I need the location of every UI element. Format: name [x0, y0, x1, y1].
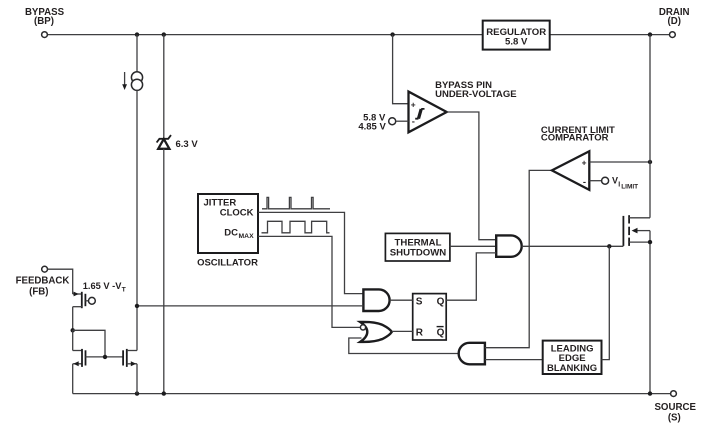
wire top rail BP to regulator: [47, 34, 482, 36]
svg-text:DC: DC: [224, 228, 238, 239]
current source I1: [131, 72, 142, 91]
wire AND output to MOSFET gate: [522, 245, 624, 247]
svg-text:(FB): (FB): [29, 286, 48, 297]
junction top rail at drain line: [648, 32, 652, 36]
wire UV comparator output to AND gate: [447, 112, 497, 240]
wire LEB to blanking AND: [485, 359, 543, 361]
wire source vertical: [649, 231, 651, 394]
wire zener lower to bottom rail: [163, 149, 165, 394]
terminal BYPASS (BP): [42, 32, 48, 38]
svg-text:OSCILLATOR: OSCILLATOR: [197, 258, 258, 269]
wire mirror gate feed: [73, 330, 105, 357]
wire blanking AND output to OR input: [349, 338, 459, 354]
label FEEDBACK (FB): [16, 275, 70, 297]
svg-text:FEEDBACK: FEEDBACK: [16, 275, 70, 286]
wire Q output to AND gate input: [446, 253, 496, 300]
junction bottom rail at zener: [162, 391, 166, 395]
or gate U8 reset: [360, 322, 392, 342]
label BYPASS PIN UNDER-VOLTAGE: [435, 80, 516, 100]
svg-text:R: R: [416, 327, 424, 338]
svg-text:+: +: [582, 157, 587, 167]
svg-text:(BP): (BP): [34, 16, 54, 27]
comparator U3 bypass pin under-voltage: [409, 92, 447, 133]
junction mirror left: [71, 328, 75, 332]
junction feedback sense node: [135, 304, 139, 308]
leading edge blanking U11: [543, 341, 602, 374]
thermal shutdown U4: [385, 233, 450, 261]
junction mirror gates: [103, 355, 107, 359]
junction top rail at current source: [135, 32, 139, 36]
wire drain vertical: [649, 35, 651, 218]
svg-text:5.8 V: 5.8 V: [505, 37, 528, 48]
node BP UV tap wire: [393, 35, 409, 104]
junction bottom rail at mirror: [135, 391, 139, 395]
wire current source upper: [136, 35, 138, 72]
transistor Q3 mirror left NMOS: [73, 349, 86, 367]
wire regulator to drain: [550, 34, 670, 36]
svg-text:(D): (D): [667, 16, 680, 27]
wire mirror left leg: [72, 330, 74, 350]
comparator U10 current limit: [552, 151, 589, 190]
flip-flop U6 S R latch: [413, 294, 447, 340]
zener diode VR1 6.3 V: [157, 135, 171, 149]
wire FB terminal to sense FET: [48, 269, 73, 294]
wire OR output to R input: [392, 330, 413, 332]
oscillator U2: [198, 194, 258, 253]
svg-text:1.65 V -V: 1.65 V -V: [83, 281, 123, 291]
transistor Q2 feedback sense PMOS: [73, 292, 96, 309]
wire current source lower to FB mirror junction: [136, 90, 138, 306]
wire current limit output to blanking AND: [485, 170, 552, 347]
wire current limit plus input to drain line: [589, 161, 650, 163]
regulator U1 5.8 V: [483, 21, 550, 50]
junction top rail at UV comparator tap: [390, 32, 394, 36]
svg-text:V: V: [612, 175, 618, 185]
junction drain line at comparator: [648, 160, 652, 164]
wire bottom rail: [73, 393, 671, 395]
current source arrow: [122, 72, 127, 90]
svg-text:SHUTDOWN: SHUTDOWN: [390, 248, 447, 259]
wire dcmax output to OR gate: [258, 236, 360, 327]
label V ILIMIT: [612, 175, 638, 190]
svg-text:I: I: [618, 182, 620, 189]
and gate U7 set: [363, 289, 389, 311]
transistor Q4 mirror right NMOS: [123, 349, 137, 367]
wire LEB to gate node: [602, 246, 610, 359]
and gate U9 blanking (mirrored): [459, 343, 485, 365]
svg-text:6.3 V: 6.3 V: [176, 139, 199, 150]
label CURRENT LIMIT COMPARATOR: [541, 125, 615, 143]
wire S AND output to S input: [390, 299, 413, 301]
svg-text:-: -: [412, 116, 415, 127]
svg-text:UNDER-VOLTAGE: UNDER-VOLTAGE: [435, 89, 516, 100]
junction bottom rail at source line: [648, 391, 652, 395]
wire Q3 source to bottom rail: [72, 364, 74, 394]
svg-text:CLOCK: CLOCK: [220, 208, 254, 219]
wire reference to comparator minus: [396, 120, 409, 122]
power MOSFET Q1: [623, 215, 650, 246]
and gate U5 gate drive: [496, 235, 522, 256]
label DRAIN (D): [659, 7, 690, 27]
dcmax waveform: [262, 221, 330, 233]
svg-text:MAX: MAX: [239, 233, 255, 240]
svg-text:S: S: [416, 296, 423, 307]
wire current limit minus input: [589, 180, 601, 182]
junction MOSFET source: [648, 240, 652, 244]
svg-text:(S): (S): [668, 413, 681, 424]
junction gate node LEB: [607, 244, 611, 248]
svg-text:+: +: [411, 99, 416, 109]
svg-text:Q: Q: [437, 296, 445, 307]
wire Q4 drain to sense node: [136, 306, 138, 351]
label SOURCE (S): [654, 402, 696, 424]
svg-text:LIMIT: LIMIT: [621, 184, 638, 191]
wire thermal shutdown to AND gate: [450, 245, 497, 247]
terminal 5.8V/4.85V reference: [389, 118, 396, 125]
svg-text:-: -: [583, 177, 586, 188]
wire Q4 source to bottom rail: [136, 364, 138, 394]
junction top rail at zener: [162, 32, 166, 36]
wire sense FET to mirror: [72, 307, 74, 331]
svg-text:SOURCE: SOURCE: [654, 402, 696, 413]
wire feedback sense to S AND input: [137, 305, 363, 307]
clock waveform: [262, 197, 330, 208]
wire mirror gates: [86, 356, 124, 358]
terminal V ILIMIT reference: [602, 177, 609, 184]
terminal SOURCE (S): [671, 391, 677, 397]
label 1.65 V -VT: [83, 281, 127, 293]
label 5.8 V 4.85 V: [358, 113, 386, 133]
svg-text:BLANKING: BLANKING: [547, 363, 597, 374]
svg-text:4.85 V: 4.85 V: [358, 122, 386, 133]
label BYPASS (BP): [25, 7, 65, 27]
wire zener upper: [163, 35, 165, 139]
terminal DRAIN (D): [670, 32, 676, 38]
svg-text:COMPARATOR: COMPARATOR: [541, 132, 609, 143]
svg-text:Q: Q: [437, 327, 445, 338]
terminal FEEDBACK (FB): [42, 266, 48, 272]
wire clock output to S AND gate: [258, 212, 363, 293]
